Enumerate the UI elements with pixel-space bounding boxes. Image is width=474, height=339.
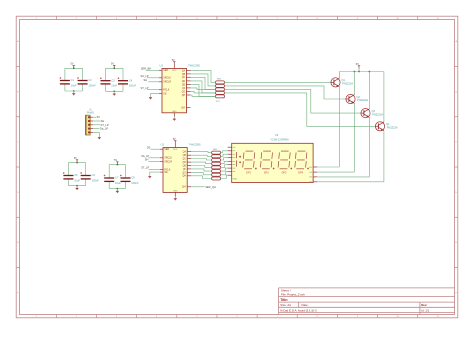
svg-text:ST_LP: ST_LP bbox=[141, 86, 149, 90]
svg-text:ST_LP: ST_LP bbox=[101, 123, 109, 127]
svg-text:100nF: 100nF bbox=[131, 181, 139, 185]
svg-text:SH: SH bbox=[101, 119, 105, 123]
svg-text:SA_LP: SA_LP bbox=[141, 154, 149, 158]
svg-text:C7: C7 bbox=[115, 176, 119, 180]
svg-text:SRCLK: SRCLK bbox=[163, 78, 171, 80]
svg-text:QA: QA bbox=[183, 151, 187, 154]
svg-text:SH: SH bbox=[144, 78, 148, 82]
svg-text:74HC595: 74HC595 bbox=[189, 143, 201, 147]
svg-text:File: Project_2.sch: File: Project_2.sch bbox=[281, 292, 305, 296]
svg-text:U1: U1 bbox=[160, 64, 164, 68]
svg-text:QB: QB bbox=[182, 74, 186, 76]
svg-text:C3: C3 bbox=[111, 78, 115, 82]
svg-text:DP4: DP4 bbox=[298, 172, 303, 175]
svg-text:10uF: 10uF bbox=[74, 179, 80, 183]
svg-text:5V: 5V bbox=[356, 63, 359, 66]
svg-text:QE: QE bbox=[183, 165, 187, 167]
svg-text:C8: C8 bbox=[131, 176, 135, 180]
svg-text:SER_BA: SER_BA bbox=[141, 67, 152, 71]
svg-text:QC: QC bbox=[182, 77, 186, 79]
svg-text:U3: U3 bbox=[275, 133, 279, 137]
svg-text:100nF: 100nF bbox=[92, 179, 100, 183]
svg-text:ST_LP: ST_LP bbox=[141, 166, 149, 170]
svg-text:DS: DS bbox=[147, 145, 151, 149]
svg-text:GND: GND bbox=[233, 178, 238, 180]
svg-text:QH': QH' bbox=[181, 108, 185, 110]
svg-text:Da_LP: Da_LP bbox=[100, 127, 108, 131]
svg-text:SRCLR: SRCLR bbox=[163, 82, 171, 84]
svg-text:OE: OE bbox=[163, 94, 167, 96]
svg-text:PN2222A: PN2222A bbox=[387, 127, 398, 130]
svg-text:SH: SH bbox=[145, 158, 149, 162]
svg-text:YC56-12SRWA: YC56-12SRWA bbox=[270, 137, 289, 141]
svg-text:GND: GND bbox=[172, 111, 177, 113]
svg-text:DP2: DP2 bbox=[264, 172, 269, 175]
svg-text:C5: C5 bbox=[74, 173, 78, 177]
svg-text:DP1: DP1 bbox=[246, 172, 251, 175]
svg-text:SRCLK: SRCLK bbox=[164, 158, 172, 160]
svg-text:PN2222A: PN2222A bbox=[342, 83, 353, 86]
svg-text:GND: GND bbox=[173, 190, 178, 192]
svg-text:QA: QA bbox=[182, 69, 186, 72]
svg-text:PinHD: PinHD bbox=[87, 111, 94, 114]
svg-text:QE: QE bbox=[182, 84, 186, 86]
svg-text:PN2222A: PN2222A bbox=[357, 99, 368, 102]
svg-text:QB: QB bbox=[183, 155, 187, 157]
svg-text:SER: SER bbox=[163, 70, 168, 72]
svg-text:SER: SER bbox=[164, 149, 169, 151]
svg-text:QC: QC bbox=[182, 158, 186, 160]
svg-text:QG: QG bbox=[182, 91, 186, 93]
svg-text:RCLK: RCLK bbox=[163, 90, 170, 92]
svg-text:Rev:: Rev: bbox=[421, 303, 427, 307]
svg-text:KiCad E.D.A. kicad (5.1.5)-3: KiCad E.D.A. kicad (5.1.5)-3 bbox=[280, 308, 317, 312]
svg-text:100nF: 100nF bbox=[129, 84, 137, 88]
svg-text:RN1: RN1 bbox=[217, 79, 222, 81]
svg-text:5V: 5V bbox=[173, 138, 176, 141]
svg-text:C2: C2 bbox=[88, 78, 92, 82]
svg-text:10uF: 10uF bbox=[111, 84, 117, 88]
svg-text:VCC: VCC bbox=[173, 149, 178, 151]
svg-text:OE: OE bbox=[164, 172, 168, 174]
svg-text:Date:: Date: bbox=[302, 303, 309, 307]
svg-text:RN2: RN2 bbox=[213, 149, 218, 151]
svg-text:5V: 5V bbox=[74, 157, 77, 160]
svg-text:5V: 5V bbox=[111, 63, 114, 66]
svg-text:C6: C6 bbox=[92, 173, 96, 177]
svg-text:SRCLR: SRCLR bbox=[164, 161, 172, 163]
svg-text:100nF: 100nF bbox=[88, 84, 96, 88]
svg-text:QH': QH' bbox=[182, 187, 186, 189]
svg-text:SER_QH: SER_QH bbox=[205, 185, 216, 189]
svg-text:U2: U2 bbox=[161, 143, 165, 147]
svg-text:DP3: DP3 bbox=[282, 172, 287, 175]
svg-text:74HC595: 74HC595 bbox=[188, 64, 200, 68]
svg-text:C1: C1 bbox=[71, 78, 75, 82]
svg-text:C4: C4 bbox=[129, 78, 133, 82]
svg-text:QD: QD bbox=[182, 81, 186, 83]
svg-text:Title:: Title: bbox=[280, 298, 288, 302]
svg-text:QH: QH bbox=[182, 95, 186, 97]
svg-text:10uF: 10uF bbox=[71, 84, 77, 88]
svg-text:Size: A4: Size: A4 bbox=[280, 303, 291, 307]
svg-text:PN2222A: PN2222A bbox=[372, 113, 383, 116]
svg-text:QH: QH bbox=[182, 176, 186, 178]
svg-text:5V: 5V bbox=[114, 159, 117, 162]
svg-text:QG: QG bbox=[182, 172, 186, 174]
svg-text:VCC: VCC bbox=[172, 70, 177, 72]
svg-text:10uF: 10uF bbox=[115, 181, 121, 185]
svg-text:SA_LP: SA_LP bbox=[141, 74, 149, 78]
svg-text:QD: QD bbox=[182, 162, 186, 164]
svg-text:Id: 1/1: Id: 1/1 bbox=[421, 308, 429, 312]
svg-text:5V: 5V bbox=[71, 63, 74, 66]
svg-text:5V: 5V bbox=[172, 59, 175, 62]
svg-text:5V: 5V bbox=[97, 115, 100, 119]
